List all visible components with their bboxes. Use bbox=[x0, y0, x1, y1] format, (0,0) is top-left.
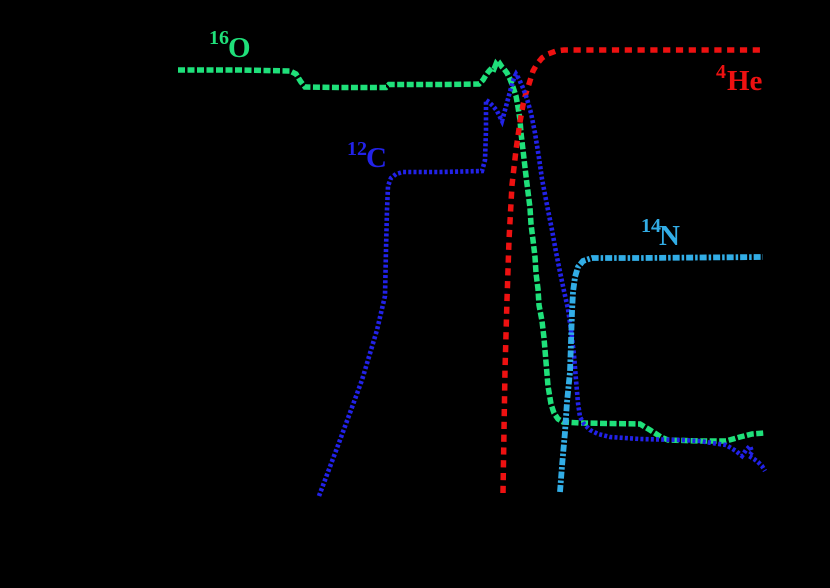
svg-text:14: 14 bbox=[641, 215, 661, 237]
svg-text:N: N bbox=[659, 220, 680, 252]
svg-text:O: O bbox=[228, 32, 251, 64]
svg-text:12: 12 bbox=[347, 138, 367, 160]
svg-text:C: C bbox=[366, 142, 387, 174]
svg-text:He: He bbox=[727, 65, 763, 97]
svg-text:4: 4 bbox=[716, 61, 726, 83]
svg-text:16: 16 bbox=[209, 27, 229, 49]
